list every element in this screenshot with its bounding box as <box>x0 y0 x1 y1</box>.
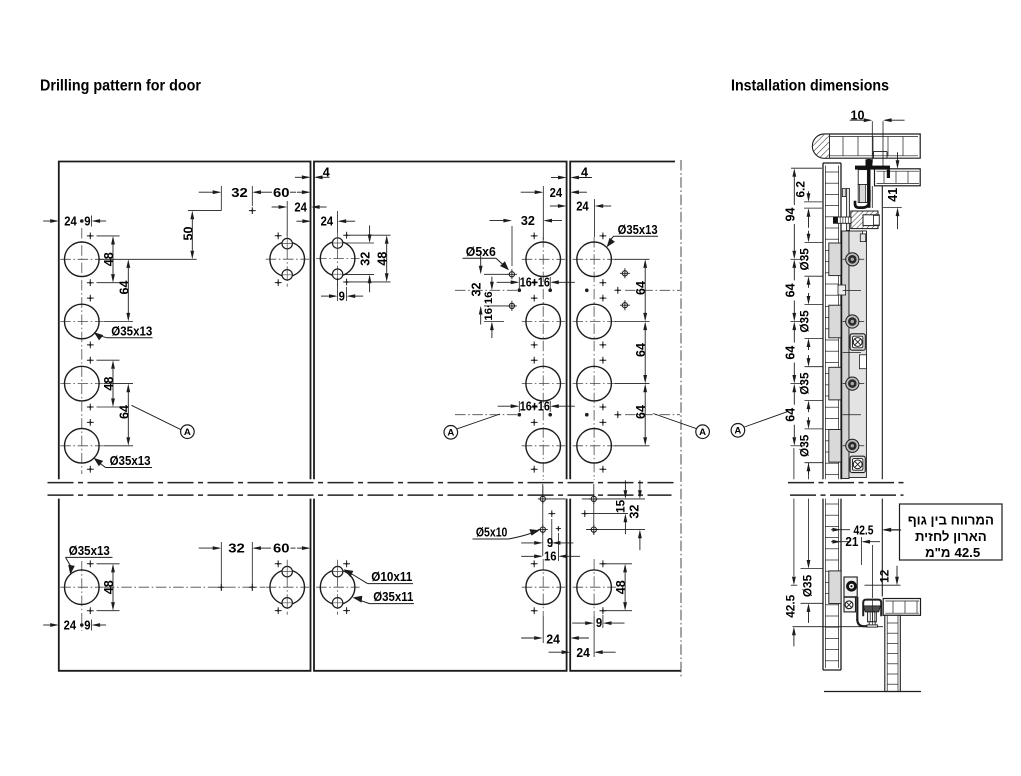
svg-text:24: 24 <box>321 215 334 229</box>
svg-text:64: 64 <box>634 343 648 357</box>
svg-text:48: 48 <box>102 580 116 594</box>
panel3 crosses row1 <box>600 233 607 240</box>
panel2 dim 32 top (pilot hole to cup column) <box>511 226 513 266</box>
panel3 bottom pilot column line <box>593 484 595 535</box>
top panel slot for bolt <box>873 152 875 159</box>
row centerline ticks left side <box>791 258 805 260</box>
svg-text:9: 9 <box>84 618 90 632</box>
panel2 crosses row4 <box>531 419 538 426</box>
hinge cup drillings in door (gray) <box>829 243 841 276</box>
panel1 hinge cup circle row4 (Ø35) <box>60 445 104 447</box>
dims Ø35 at each row <box>805 241 824 243</box>
svg-text:4: 4 <box>323 165 330 179</box>
panel2 crosses row2 <box>531 295 538 302</box>
inner dim column continuation through break <box>808 463 810 480</box>
panel2 dim 32 vertical (between pilot holes) <box>484 273 509 275</box>
sliding door panel cross-section (bottom part) <box>823 499 841 670</box>
svg-text:42.5: 42.5 <box>783 594 797 617</box>
svg-text:9: 9 <box>339 289 345 303</box>
panel3 cup circle row1 <box>573 258 617 260</box>
svg-text:24: 24 <box>546 633 560 647</box>
detail label A panel2 with leader <box>457 414 500 429</box>
panel3 crosses row2 <box>600 295 607 302</box>
cabinet bottom panel <box>883 599 920 616</box>
ext line for 21 dim <box>860 537 862 565</box>
front reference line below second panel <box>871 186 873 208</box>
detail label A installation with leader <box>744 412 787 427</box>
mid-row centerline 3-4 panel2 <box>455 414 517 416</box>
panel2 pilot hole Ø5x6 lower <box>509 303 514 308</box>
panel1 bottom horizontal centerline to hinge <box>104 586 265 588</box>
svg-text:32: 32 <box>231 186 248 200</box>
svg-text:24: 24 <box>64 618 77 632</box>
break line upper <box>48 482 675 484</box>
svg-text:64: 64 <box>117 405 131 419</box>
panel1 dim 64 lower (circle3 to circle4) <box>104 383 133 385</box>
svg-text:42.5: 42.5 <box>955 545 981 560</box>
bottom bracket plate lower <box>844 597 856 612</box>
panel3 pilot holes right side <box>622 271 627 276</box>
svg-text:32: 32 <box>628 505 642 519</box>
panel1 screw position crosses row2 <box>87 295 94 302</box>
svg-text:24: 24 <box>294 200 307 214</box>
svg-text:Ø35: Ø35 <box>798 248 812 271</box>
panel1 bottom chain dim 32 and 60 <box>220 542 222 591</box>
panel1 bottom hinge <box>286 560 288 615</box>
panel1 screw position crosses row1 <box>87 233 94 240</box>
panel1 vertical centerline through cup column <box>81 228 83 474</box>
svg-text:41: 41 <box>886 188 900 202</box>
svg-text:Ø35x11: Ø35x11 <box>373 590 413 604</box>
mid-row ticks right side <box>843 289 861 291</box>
svg-text:64: 64 <box>783 283 797 297</box>
bracket screw big <box>846 581 857 592</box>
hanger housing upper <box>858 170 867 185</box>
panel2 bottom dim 16 <box>557 533 559 561</box>
panel2 bottom screw cross <box>548 510 555 517</box>
roller axle ext line right <box>865 584 901 586</box>
panel3 cup circle row3 <box>573 383 617 385</box>
top reference ext line <box>791 167 822 169</box>
panel2 bottom column ext below circle <box>542 616 544 643</box>
svg-text:24: 24 <box>64 214 77 228</box>
roller bracket centerline ext <box>871 545 873 598</box>
panel2 cup circle row3 <box>522 383 566 385</box>
break line lower <box>48 494 672 496</box>
panel1 dim 9 (top, centerline to screw column) <box>80 219 84 223</box>
panel2 dim 24 left edge to hinge <box>296 220 309 222</box>
svg-text:A: A <box>699 427 706 438</box>
hebrew note box <box>900 504 1003 560</box>
panel2 crosses row1 <box>531 233 538 240</box>
suspension bolt black <box>866 159 873 166</box>
panel1 dim 48 lower (rows around circle3) <box>97 359 120 361</box>
svg-text:Ø10x11: Ø10x11 <box>371 570 412 584</box>
panel3 dim 64 chain (rows 1-4) <box>615 258 650 260</box>
dim 94 <box>792 168 796 177</box>
roller hook staple <box>863 600 881 617</box>
panel1 hinge cup circle row1 (Ø35) <box>60 258 104 260</box>
panel2 cup column centerline <box>542 237 544 480</box>
panel2 dim 24 top right <box>542 186 544 240</box>
panel1 bottom dim 48 <box>97 563 120 565</box>
panel2 hinge dim 48 (screw crosses) <box>350 234 391 236</box>
connecting screw horizontal <box>838 217 852 223</box>
panel3 bottom dim 9 <box>602 615 604 628</box>
installation break lines <box>788 482 904 484</box>
clamp block with screw upper <box>850 334 865 350</box>
panel3 bottom dim 24 <box>549 651 569 653</box>
svg-text:16: 16 <box>544 549 557 563</box>
svg-text:4: 4 <box>581 166 588 180</box>
floor line <box>824 691 921 693</box>
panel1 bottom circle centerline vertical <box>81 561 83 631</box>
dim 42.5 horizontal top <box>831 529 850 531</box>
roller L-bracket <box>856 597 858 621</box>
panel2 dim 16-16 vertical (mid-row to cup row2) <box>484 321 504 323</box>
roller dark wedge <box>863 606 880 612</box>
panel3 dim 15 <box>624 480 626 497</box>
panel2 top hinge <box>337 231 339 286</box>
dim 4 gap between panel1 and panel2 <box>295 176 309 178</box>
cabinet top front rail panel (second panel) <box>875 169 921 186</box>
panel2 pilot hole Ø5x6 upper <box>509 272 514 277</box>
svg-text:32: 32 <box>521 214 535 228</box>
panel3 cup column centerline <box>593 237 595 480</box>
panel1 screw position crosses row3 <box>87 357 94 364</box>
svg-text:48: 48 <box>614 580 628 594</box>
aluminium profile strip on door back <box>842 231 849 479</box>
panel2 pilot row ext line <box>546 498 566 500</box>
bracket screw small <box>845 601 853 609</box>
svg-text:Ø35x13: Ø35x13 <box>111 324 152 338</box>
panel1 dim 48 upper (rows around circle1) <box>97 235 120 237</box>
panel2 bottom dim 9 <box>551 519 553 547</box>
panel2 bottom hinge <box>337 560 339 615</box>
panel3 bottom pilot holes Ø5x10 <box>591 496 596 501</box>
svg-text:A: A <box>447 428 454 439</box>
svg-text:15: 15 <box>614 499 628 513</box>
svg-text:מ"מ: מ"מ <box>925 545 950 560</box>
panel2 hinge dim 32 (small holes) <box>345 242 374 244</box>
panel1 top chain dim 60 <box>254 191 266 193</box>
panel2 cup circle row2 <box>522 321 566 323</box>
svg-text:16+16: 16+16 <box>520 399 550 413</box>
panel2 cup circle row4 <box>522 445 566 447</box>
mid-row centerline 1-2 panel2 <box>455 289 517 291</box>
svg-text:Ø35: Ø35 <box>798 434 812 457</box>
svg-text:64: 64 <box>634 281 648 295</box>
panel1 hinge cup circle row3 (Ø35) <box>60 383 104 385</box>
panel3 cup circle row2 <box>573 321 617 323</box>
svg-text:64: 64 <box>783 408 797 422</box>
svg-text:12: 12 <box>878 569 892 583</box>
svg-text:50: 50 <box>181 226 195 240</box>
svg-text:94: 94 <box>784 207 798 221</box>
panel1 bottom dim 24 and 9 <box>43 624 57 626</box>
detail label A panel3 with leader <box>653 414 696 429</box>
panel1 top-right dim 24 to hinge <box>286 201 288 236</box>
door panel 1 outline (top+bottom sections) <box>59 162 311 671</box>
svg-text:60: 60 <box>273 542 290 556</box>
svg-text:24: 24 <box>550 186 563 200</box>
roller bolt shank <box>868 612 877 622</box>
dim 41 right <box>883 207 902 209</box>
svg-text:60: 60 <box>273 186 290 200</box>
panel3 crosses row3 <box>600 357 607 364</box>
dims 64 between rows <box>792 259 796 268</box>
panel3 bottom dim 48 <box>604 563 632 565</box>
panel2 bottom cup circle <box>522 586 566 588</box>
row centerline ticks right side <box>843 258 865 260</box>
bottom Ø35 dim <box>801 568 823 570</box>
small cross at chain point <box>249 207 256 214</box>
dim 12 <box>896 566 898 584</box>
panel3 dim 24 left edge to cup column <box>550 205 565 207</box>
svg-text:Ø35x13: Ø35x13 <box>618 223 658 237</box>
svg-text:Ø35: Ø35 <box>798 372 812 395</box>
sliding door panel cross-section (top part) <box>822 163 824 479</box>
svg-text:21: 21 <box>845 535 858 549</box>
panel3 crosses row4 <box>600 419 607 426</box>
chain crosses on centerline <box>218 584 225 591</box>
panel1 screw position crosses row4 <box>87 419 94 426</box>
panel1 bottom crosses <box>87 560 94 567</box>
door panel 3 outline (cut at right) <box>570 162 681 671</box>
panel1 row1 extension line to 50-dim <box>99 258 197 260</box>
svg-text:16·16: 16·16 <box>483 291 495 320</box>
panel2 bottom crosses <box>531 560 538 567</box>
outer dim column continuation <box>793 448 795 479</box>
panel1 dim 24 left edge arrow (top) <box>43 220 57 222</box>
bottom dim 42.5 left <box>791 584 798 586</box>
detail label A panel1 with leader <box>132 405 182 429</box>
dim 21 horizontal <box>831 541 850 543</box>
bullnose hatch <box>812 134 829 158</box>
panel1 bottom cup circle <box>60 586 104 588</box>
screws on profile at each row <box>846 253 859 266</box>
panel3 mid-row marks 3-4 <box>585 413 589 417</box>
carriage plate top step <box>860 234 865 242</box>
panel3 mid-row marks 1-2 <box>585 289 589 293</box>
cabinet top panel grain lines <box>830 136 919 138</box>
svg-text:Ø35x13: Ø35x13 <box>69 544 110 558</box>
hook profile black J <box>855 190 869 208</box>
panel3 bottom crosses <box>600 560 607 567</box>
nut cylinder <box>863 215 879 226</box>
panel3 bottom column ext below circle <box>593 616 595 657</box>
panel2 bottom dim 24 <box>521 637 541 639</box>
panel2 cup circle row1 <box>522 258 566 260</box>
panel1 hinge cup circle row2 (Ø35) <box>60 321 104 323</box>
svg-text:A: A <box>734 426 741 437</box>
panel2 dim 16+16 lower horizontal <box>518 401 520 412</box>
panel2 dim 16+16 upper horizontal <box>518 277 520 288</box>
bottom bracket plate upper <box>844 577 857 597</box>
svg-text:המרווח בין גוף: המרווח בין גוף <box>908 513 994 528</box>
panel1 top hinge (35mm cup with two 10mm holes) <box>286 232 288 287</box>
svg-text:Drilling pattern for door: Drilling pattern for door <box>40 78 201 95</box>
svg-text:9: 9 <box>596 616 602 630</box>
panel2 bottom pilot holes Ø5x10 <box>540 496 545 501</box>
cabinet front plane line <box>881 186 883 480</box>
door grain rungs top part <box>825 171 838 173</box>
panel3 bottom circle centerline <box>593 559 595 616</box>
door panel 2 outline <box>314 162 567 671</box>
panel3 dim 32 vertical <box>639 480 641 497</box>
position dots on mid-row line 1-2 <box>518 288 520 291</box>
carriage plate edge notches (white) <box>863 231 867 241</box>
hebrew box leader arrow <box>885 529 902 531</box>
panel1 dim 64 upper (circle1 to circle2) <box>104 321 133 323</box>
panel3 cup circle row4 <box>573 445 617 447</box>
roller running surface line <box>793 626 884 628</box>
mid fitting at door back rows1-2 <box>838 285 846 295</box>
spreading nut block hatched <box>851 211 878 229</box>
svg-text:Ø35: Ø35 <box>798 310 812 333</box>
svg-text:64: 64 <box>634 405 648 419</box>
svg-text:64: 64 <box>117 280 131 294</box>
panel3 pilot row ext lines <box>582 498 645 500</box>
dim 10 top <box>871 121 873 163</box>
svg-text:Installation dimensions: Installation dimensions <box>731 78 889 95</box>
panel1 dim 50 vertical <box>188 210 221 212</box>
svg-text:6.2: 6.2 <box>793 181 807 198</box>
panel2 bottom small mark <box>556 526 561 531</box>
panel1 top chain dim 32 <box>220 186 222 211</box>
panel3 bottom screw cross <box>581 510 588 517</box>
panel3 dim 4 gap between panel2 and panel3 <box>551 177 565 179</box>
svg-text:24: 24 <box>576 199 589 213</box>
svg-text:24: 24 <box>576 646 590 660</box>
hanger housing lower <box>858 185 867 203</box>
svg-text:16+16: 16+16 <box>520 276 550 290</box>
svg-text:32: 32 <box>470 282 484 296</box>
svg-text:Ø35x13: Ø35x13 <box>110 454 151 468</box>
panel2 bottom circle centerline <box>542 559 544 616</box>
svg-text:Ø35: Ø35 <box>801 574 815 597</box>
svg-text:Ø5x10: Ø5x10 <box>476 526 508 540</box>
svg-text:48: 48 <box>376 252 390 266</box>
cabinet top panel with bullnose front edge <box>812 134 920 158</box>
track bar black <box>855 166 890 170</box>
thin profile bar at door back <box>846 189 849 231</box>
svg-text:64: 64 <box>783 346 797 360</box>
panel 3 cut centerline <box>680 160 682 677</box>
svg-text:A: A <box>184 427 191 438</box>
svg-text:32: 32 <box>228 542 245 556</box>
panel2 crosses row3 <box>531 357 538 364</box>
carriage plate <box>849 231 866 478</box>
svg-text:9: 9 <box>84 214 90 228</box>
cabinet bottom front rail vertical <box>885 615 901 691</box>
panel3 bottom cup circle <box>573 586 617 588</box>
clamp block with screw lower <box>850 456 865 472</box>
panel2 bottom pilot column line <box>542 484 544 556</box>
panel2 hinge dim 9 <box>337 278 339 301</box>
svg-text:32: 32 <box>359 252 373 266</box>
svg-text:הארון לחזית: הארון לחזית <box>915 529 987 544</box>
